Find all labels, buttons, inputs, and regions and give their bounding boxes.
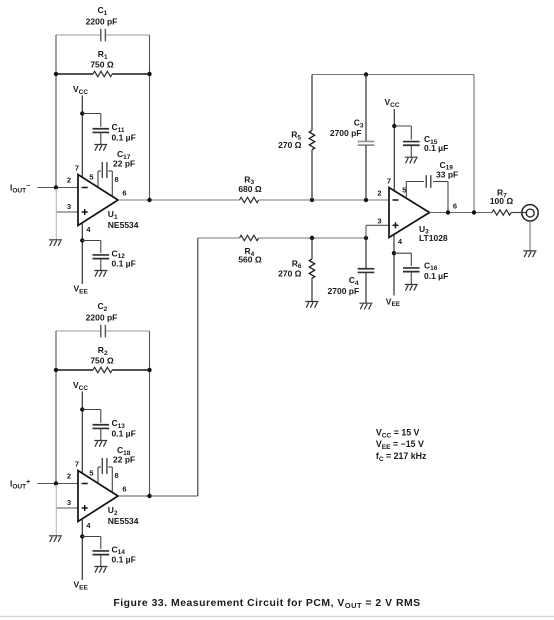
- svg-text:6: 6: [122, 485, 126, 494]
- svg-text:NE5534: NE5534: [108, 516, 139, 526]
- wire left feedback rail: [55, 331, 57, 484]
- wire IOUT+ input: [38, 483, 79, 485]
- svg-text:Figure 33. Measurement Circuit: Figure 33. Measurement Circuit for PCM, …: [113, 598, 420, 610]
- svg-text:7: 7: [75, 164, 79, 173]
- capacitor C1: [56, 5, 150, 41]
- junction inverting input: [54, 481, 58, 485]
- capacitor C4: [328, 238, 375, 303]
- node IOUT+: [10, 479, 30, 491]
- junction feedback left: [54, 72, 58, 76]
- svg-text:22 pF: 22 pF: [113, 159, 135, 169]
- resistor R5: [278, 75, 315, 201]
- capacitor C16: [394, 253, 448, 284]
- junction VCC U3: [392, 124, 396, 128]
- capacitor C2: [56, 301, 150, 337]
- capacitor C15: [394, 126, 448, 157]
- wire non-inverting input to ground: [56, 189, 78, 240]
- junction VCC decoupling: [80, 111, 84, 115]
- wire connector to ground: [529, 221, 531, 251]
- resistor R2: [56, 345, 150, 373]
- svg-text:100 Ω: 100 Ω: [490, 196, 514, 206]
- wire R7 to connector: [511, 212, 527, 214]
- capacitor C13: [82, 410, 135, 441]
- node IOUT-: [10, 183, 30, 195]
- svg-text:0.1 µF: 0.1 µF: [112, 259, 136, 269]
- wire feedback right rail: [473, 75, 475, 213]
- svg-text:5: 5: [89, 469, 93, 478]
- wire U3 output: [430, 212, 493, 214]
- svg-text:750 Ω: 750 Ω: [90, 60, 114, 70]
- svg-text:8: 8: [115, 471, 119, 480]
- svg-text:3: 3: [67, 202, 71, 211]
- junction R5 at inverting node: [310, 198, 314, 202]
- wire right feedback rail: [149, 331, 151, 496]
- svg-text:2200 pF: 2200 pF: [86, 313, 118, 323]
- node VEE U3: [386, 296, 401, 308]
- capacitor C18: [98, 445, 135, 492]
- wire non-inverting input to ground: [56, 485, 78, 536]
- ground VEE decoupling: [94, 271, 107, 277]
- wire bottom rule: [0, 616, 554, 618]
- wire pin 4 to VEE: [81, 519, 83, 580]
- svg-text:8: 8: [115, 175, 119, 184]
- junction feedback right: [147, 72, 151, 76]
- resistor R3: [238, 174, 262, 202]
- svg-text:6: 6: [122, 189, 126, 198]
- caption figure 33: [113, 598, 420, 610]
- junction U2 output: [147, 494, 151, 498]
- junction C19 at output: [446, 210, 450, 214]
- op-amp U3 LT1028: [389, 188, 448, 243]
- junction VEE decoupling: [80, 238, 84, 242]
- node VEE: [74, 284, 89, 296]
- svg-text:2200 pF: 2200 pF: [86, 17, 118, 27]
- capacitor C14: [82, 537, 135, 567]
- svg-text:2700 pF: 2700 pF: [330, 128, 362, 138]
- wire U2 output riser: [197, 238, 199, 496]
- wire right feedback rail: [149, 35, 151, 200]
- svg-text:0.1 µF: 0.1 µF: [112, 555, 136, 565]
- connector output jack: [522, 205, 538, 221]
- svg-text:270 Ω: 270 Ω: [278, 268, 302, 278]
- svg-text:270 Ω: 270 Ω: [278, 140, 302, 150]
- wire pin 4 to VEE: [81, 223, 83, 284]
- op-amp U2 NE5534: [78, 471, 139, 527]
- ground C4: [360, 303, 373, 309]
- svg-text:0.1 µF: 0.1 µF: [112, 429, 136, 439]
- capacitor C17: [98, 149, 135, 196]
- svg-text:2: 2: [377, 188, 381, 197]
- junction feedback left: [54, 368, 58, 372]
- node VCC: [73, 84, 88, 177]
- ground VCC decoupling: [94, 441, 107, 447]
- resistor R4: [238, 235, 262, 264]
- wire R4 to non-inverting node: [259, 237, 366, 239]
- ground connector: [524, 251, 537, 257]
- wire IOUT- input: [38, 187, 79, 189]
- junction U1 output: [147, 198, 151, 202]
- ground C16: [405, 285, 418, 291]
- node VEE: [74, 580, 89, 592]
- svg-text:7: 7: [75, 460, 79, 469]
- svg-text:6: 6: [453, 201, 457, 210]
- svg-text:NE5534: NE5534: [108, 220, 139, 230]
- junction inverting input: [54, 185, 58, 189]
- ground C15: [405, 157, 418, 163]
- svg-text:2: 2: [67, 175, 71, 184]
- wire feedback top: [312, 74, 474, 76]
- svg-text:0.1 µF: 0.1 µF: [424, 271, 448, 281]
- ground R6: [306, 302, 319, 308]
- wire U2 output: [118, 495, 198, 497]
- junction C4 at non-inverting node: [364, 236, 368, 240]
- wire riser to R4: [198, 237, 240, 239]
- svg-text:0.1 µF: 0.1 µF: [112, 133, 136, 143]
- svg-text:680 Ω: 680 Ω: [238, 184, 262, 194]
- svg-text:0.1 µF: 0.1 µF: [424, 143, 448, 153]
- svg-text:560 Ω: 560 Ω: [238, 254, 262, 264]
- resistor R7: [490, 188, 514, 216]
- capacitor C3: [330, 75, 374, 201]
- svg-text:33 pF: 33 pF: [436, 169, 458, 179]
- ground non-inverting input: [49, 240, 62, 246]
- wire non-inverting node to U3: [366, 225, 389, 238]
- svg-text:3: 3: [377, 216, 381, 225]
- capacitor C11: [82, 114, 135, 145]
- junction feedback at output: [472, 210, 476, 214]
- wire pin 4 U3 to VEE: [393, 235, 395, 296]
- resistor R1: [56, 49, 150, 77]
- junction C3 at inverting node: [364, 198, 368, 202]
- wire R3 to U3 inverting input: [259, 199, 389, 201]
- svg-text:2700 pF: 2700 pF: [328, 286, 360, 296]
- ground non-inverting input: [49, 536, 62, 542]
- capacitor C12: [82, 241, 135, 271]
- junction feedback right: [147, 368, 151, 372]
- node VCC U3: [385, 97, 400, 191]
- wire left feedback rail: [55, 35, 57, 188]
- junction C3 top: [364, 72, 368, 76]
- junction R6 at non-inverting node: [310, 236, 314, 240]
- svg-text:3: 3: [67, 498, 71, 507]
- note supply conditions: [376, 428, 427, 463]
- svg-text:2: 2: [67, 471, 71, 480]
- node VCC: [73, 380, 88, 473]
- svg-text:5: 5: [89, 173, 93, 182]
- svg-text:7: 7: [387, 177, 391, 186]
- capacitor C19: [406, 160, 458, 213]
- svg-text:22 pF: 22 pF: [113, 455, 135, 465]
- ground VCC decoupling: [94, 145, 107, 151]
- resistor R6: [278, 238, 315, 301]
- junction VCC decoupling: [80, 407, 84, 411]
- junction VEE decoupling: [80, 534, 84, 538]
- svg-text:LT1028: LT1028: [419, 233, 448, 243]
- wire U1 output to R3: [118, 199, 240, 201]
- ground VEE decoupling: [94, 567, 107, 573]
- junction VEE U3: [392, 251, 396, 255]
- svg-text:750 Ω: 750 Ω: [90, 356, 114, 366]
- op-amp U1 NE5534: [78, 175, 139, 231]
